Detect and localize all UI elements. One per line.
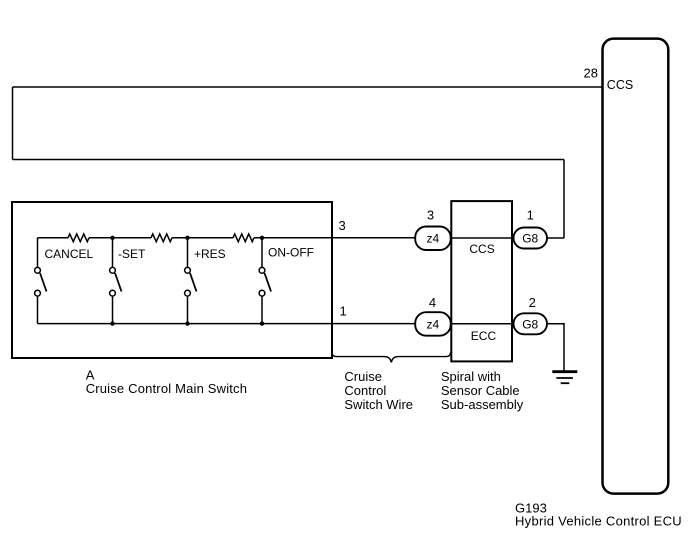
wire: horizontal into G8 pin 1 (547, 237, 564, 239)
svg-text:Cruise: Cruise (344, 369, 382, 384)
wire: top bus segment R3 through box edge to z4 pin 3 (254, 237, 416, 239)
main switch box A (Cruise Control Main Switch) (12, 202, 332, 358)
svg-text:Hybrid Vehicle Control ECU: Hybrid Vehicle Control ECU (515, 514, 682, 529)
node: bottom bus junction at +RES (185, 321, 189, 325)
node: bottom bus junction at -SET (110, 321, 114, 325)
node: bottom bus junction at ON-OFF (260, 321, 264, 325)
ground symbol (552, 372, 577, 384)
switch S4 ON-OFF (259, 238, 271, 324)
wire: bottom bus from CANCEL through box edge to z4 pin 4 (38, 323, 416, 325)
node: top bus junction at +RES (185, 236, 189, 240)
svg-text:CCS: CCS (469, 242, 494, 256)
svg-text:Spiral with: Spiral with (441, 369, 501, 384)
svg-text:z4: z4 (427, 317, 440, 331)
svg-text:1: 1 (340, 304, 347, 319)
svg-text:Sub-assembly: Sub-assembly (441, 397, 524, 412)
svg-text:28: 28 (584, 66, 598, 81)
brace under cruise control switch wire (332, 352, 451, 362)
connector z4 pin 4 oval (415, 312, 451, 336)
svg-text:Control: Control (344, 383, 386, 398)
svg-text:3: 3 (339, 218, 346, 233)
node: top bus junction at -SET (110, 236, 114, 240)
svg-text:3: 3 (427, 208, 434, 223)
resistor R2 (151, 234, 172, 242)
svg-text:2: 2 (529, 295, 536, 310)
wire: middle horizontal run to right (13, 159, 565, 161)
svg-text:CCS: CCS (607, 78, 633, 92)
svg-text:Sensor Cable: Sensor Cable (441, 383, 520, 398)
svg-text:CANCEL: CANCEL (45, 247, 94, 261)
wire: G8 pin 2 to ground drop (547, 324, 564, 371)
wire: left vertical drop (12, 87, 14, 160)
connector G8 pin 1 oval (514, 228, 548, 249)
svg-text:+RES: +RES (194, 247, 226, 261)
svg-text:-SET: -SET (118, 247, 146, 261)
svg-text:Switch Wire: Switch Wire (344, 397, 413, 412)
wire: ECU pin 28 to top-left corner (net CCS top run) (13, 86, 603, 88)
switch S2 -SET (110, 238, 122, 324)
svg-text:Cruise Control Main Switch: Cruise Control Main Switch (86, 381, 247, 396)
switch S3 +RES (185, 238, 197, 324)
caption Spiral with Sensor Cable Sub-assembly (3 lines) (441, 369, 524, 412)
svg-text:z4: z4 (427, 232, 440, 246)
connector G8 pin 2 oval (514, 313, 548, 334)
wire: top bus segment R2 to R3 (172, 237, 233, 239)
ECU connector shell (Hybrid Vehicle Control ECU) (603, 39, 669, 494)
svg-text:1: 1 (527, 208, 534, 223)
spiral cable sub-assembly box (451, 201, 512, 361)
svg-text:G8: G8 (522, 317, 538, 331)
wire: top bus segment CANCEL to R1 (38, 237, 69, 239)
resistor R3 (233, 234, 254, 242)
svg-text:G8: G8 (522, 232, 538, 246)
wire: vertical drop to connector G8 pin 1 (563, 160, 565, 239)
node: top bus junction at ON-OFF (260, 236, 264, 240)
resistor R1 (68, 234, 89, 242)
wire: CCS through spiral box (z4-3 to G8-1) (450, 237, 514, 239)
wire: top bus segment R1 to R2 (89, 237, 151, 239)
connector z4 pin 3 oval (415, 227, 451, 251)
wire: ECC through spiral box (z4-4 to G8-2) (450, 323, 514, 325)
svg-text:ECC: ECC (471, 329, 497, 343)
caption Cruise Control Switch Wire (3 lines) (344, 369, 413, 412)
switch S1 CANCEL (35, 238, 47, 324)
svg-text:4: 4 (429, 295, 436, 310)
svg-text:ON-OFF: ON-OFF (268, 246, 314, 260)
